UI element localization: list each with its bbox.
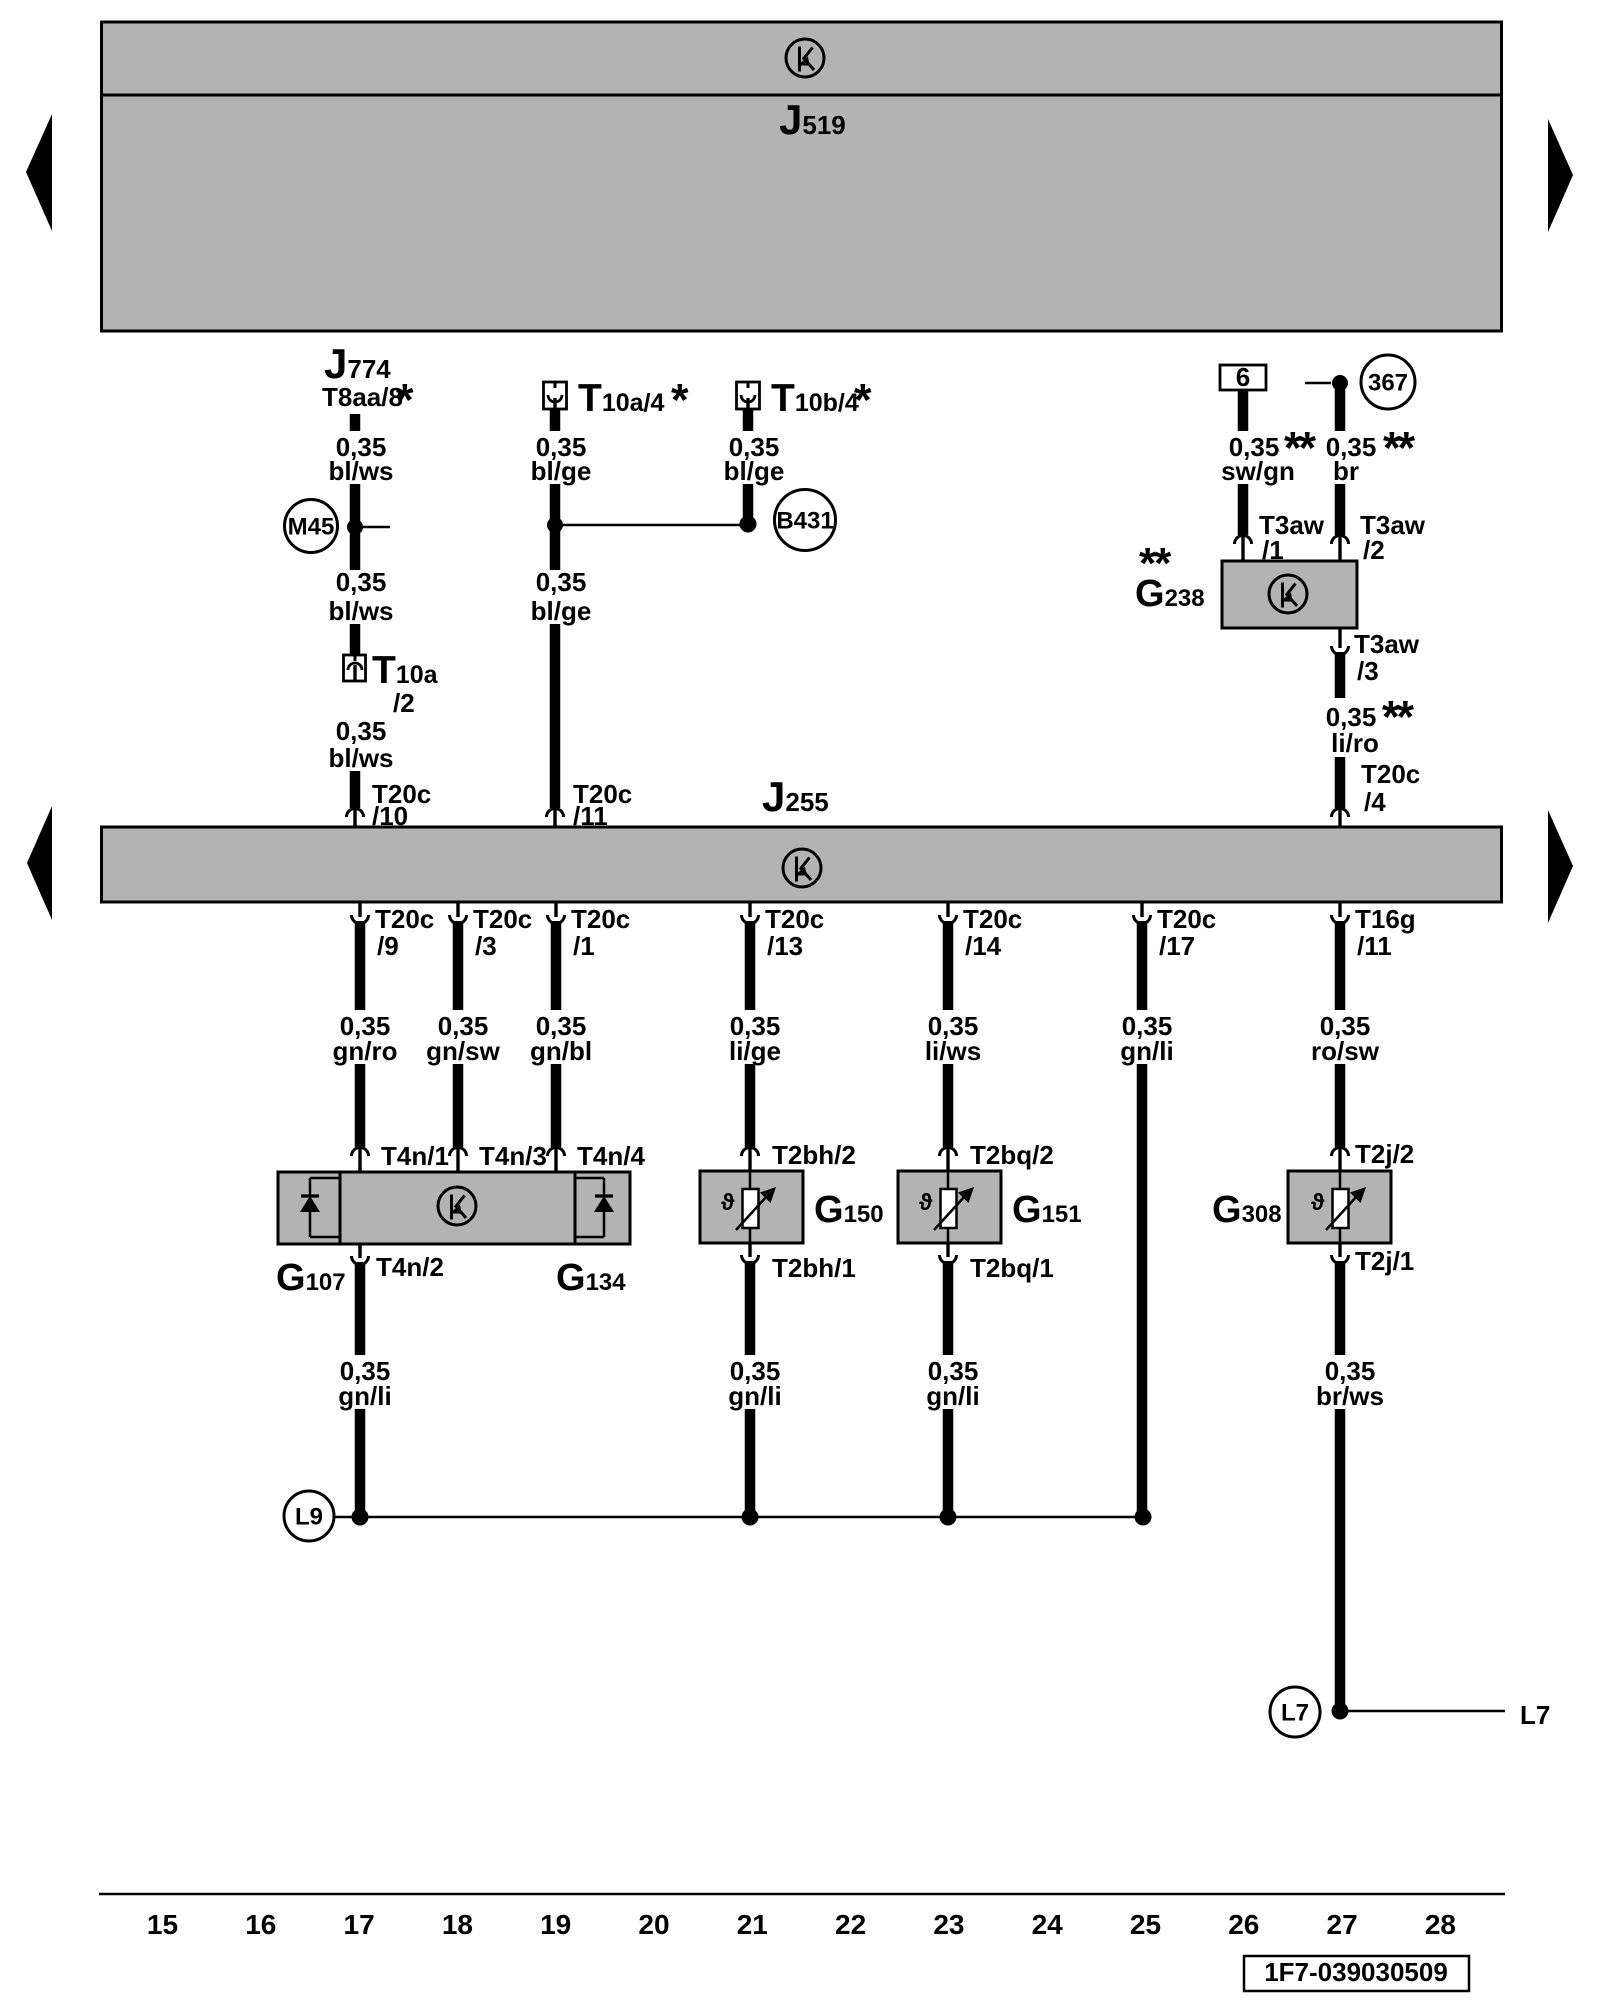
- label T16g /11: [1355, 904, 1416, 961]
- wire bl/ge lower segment: [550, 624, 561, 808]
- svg-text:bl/ws: bl/ws: [328, 596, 393, 626]
- connector pin T20c/11 into J255: [547, 809, 564, 832]
- svg-text:15: 15: [147, 1909, 178, 1940]
- wire segment to component T20c/1: [551, 1064, 562, 1147]
- svg-text:ϑ: ϑ: [1311, 1189, 1325, 1215]
- svg-text:/9: /9: [377, 931, 399, 961]
- wire label 0,35 bl/ws (upper): [328, 432, 393, 486]
- wire li/ro lower segment: [1335, 757, 1346, 808]
- wire label 0,35 gn/sw: [426, 1011, 500, 1066]
- wire segment below J255 T16g/11: [1335, 921, 1346, 1010]
- svg-text:T4n/3: T4n/3: [479, 1141, 547, 1171]
- wire segment below J255 T20c/9: [355, 921, 366, 1010]
- label T20c /11: [573, 779, 632, 831]
- inline connector T10a/4*: [544, 382, 567, 414]
- label T10a /2: [372, 649, 439, 718]
- svg-text:bl/ws: bl/ws: [328, 743, 393, 773]
- svg-text:T20c: T20c: [375, 904, 434, 934]
- label J255: [762, 773, 829, 820]
- svg-text:T20c: T20c: [571, 904, 630, 934]
- label T20c /3: [473, 904, 532, 961]
- wire gn/li to L9 (G107 branch): [355, 1409, 366, 1517]
- bottom track line: [99, 1893, 1505, 1896]
- node B431 (junction circle): [775, 490, 836, 551]
- connector pin T3aw/1 into G238: [1235, 536, 1252, 566]
- photodiode G107 (left): [300, 1178, 340, 1237]
- connector pin T20c/3 out of J255: [450, 901, 467, 924]
- wire label 0,35 gn/ro: [333, 1011, 398, 1066]
- junction dot near 367: [1332, 375, 1348, 391]
- svg-text:T8aa/8: T8aa/8: [322, 382, 403, 412]
- wire label 0,35 bl/ge (upper): [531, 432, 592, 486]
- connector pin T3aw/3 out of G238: [1332, 627, 1349, 655]
- svg-text:T20c: T20c: [1157, 904, 1216, 934]
- label T10b/4*: [771, 375, 872, 426]
- label T3aw /2: [1360, 510, 1426, 565]
- label T3aw /1: [1259, 510, 1325, 565]
- wire gn/li segment below G107: [355, 1262, 366, 1355]
- svg-text:T2bq/1: T2bq/1: [970, 1253, 1054, 1283]
- label T2j/2: [1355, 1139, 1414, 1169]
- svg-text:/2: /2: [393, 688, 415, 718]
- svg-text:sw/gn: sw/gn: [1221, 456, 1295, 486]
- label T20c /9: [375, 904, 434, 961]
- label G150: [814, 1189, 884, 1231]
- wire label 0,35 li/ge: [729, 1011, 781, 1066]
- svg-text:L7: L7: [1520, 1700, 1550, 1730]
- wire gn/li segment below G151: [943, 1261, 954, 1355]
- svg-text:21: 21: [737, 1909, 768, 1940]
- svg-text:ϑ: ϑ: [919, 1189, 933, 1215]
- wire label 0,35 bl/ge (lower): [531, 567, 592, 626]
- label T10a/4*: [578, 375, 689, 426]
- svg-text:br/ws: br/ws: [1316, 1381, 1384, 1411]
- svg-text:T20c: T20c: [1361, 759, 1420, 789]
- svg-text:T2bh/1: T2bh/1: [772, 1253, 856, 1283]
- wire br segment: [1335, 484, 1346, 535]
- svg-text:br: br: [1333, 456, 1359, 486]
- label G308: [1212, 1189, 1282, 1231]
- label ** for G238: [1139, 539, 1172, 588]
- diagram number box: [1244, 1956, 1469, 1991]
- svg-text:28: 28: [1425, 1909, 1456, 1940]
- continuation arrow left of J519: [26, 114, 52, 231]
- connector pin T2bq/1 out of G151: [940, 1242, 957, 1264]
- wire label 0,35** li/ro: [1326, 692, 1415, 759]
- svg-text:T2bh/2: T2bh/2: [772, 1140, 856, 1170]
- wire stub below terminal 6 (sw/gn): [1238, 390, 1249, 431]
- wire segment to component T20c/13: [745, 1064, 756, 1147]
- svg-text:367: 367: [1368, 370, 1408, 397]
- svg-text:17: 17: [344, 1909, 375, 1940]
- svg-text:T2j/1: T2j/1: [1355, 1246, 1414, 1276]
- wire segment below J255 T20c/1: [551, 921, 562, 1010]
- control unit J255 bar (gray, continued left/right): [102, 827, 1502, 902]
- connector pin T20c/10 into J255: [347, 809, 364, 832]
- svg-text:T20c: T20c: [473, 904, 532, 934]
- label L7 (net name): [1520, 1700, 1550, 1730]
- svg-text:**: **: [1383, 423, 1416, 474]
- svg-text:gn/li: gn/li: [338, 1381, 391, 1411]
- control unit J519 box (gray, continued left/right): [102, 22, 1502, 331]
- connector pin T20c/4 into J255: [1332, 809, 1349, 832]
- wire stub below T10a/4 (bl/ge): [550, 409, 561, 431]
- label connector T8aa/8*: [322, 375, 414, 426]
- svg-text:1F7-039030509: 1F7-039030509: [1264, 1957, 1448, 1987]
- label G238: [1135, 573, 1205, 615]
- label G134: [556, 1257, 626, 1299]
- svg-text:/3: /3: [1357, 656, 1379, 686]
- svg-text:bl/ge: bl/ge: [531, 596, 592, 626]
- svg-text:T4n/1: T4n/1: [381, 1141, 449, 1171]
- label T2j/1: [1355, 1246, 1414, 1276]
- label T2bh/1: [772, 1253, 856, 1283]
- wire segment below J255 T20c/17: [1137, 921, 1148, 1010]
- svg-text:T4n/4: T4n/4: [577, 1141, 645, 1171]
- label T20c /1: [571, 904, 630, 961]
- wire gn/li segment below G150: [745, 1261, 756, 1355]
- wire stub below 367 junction (br): [1335, 388, 1346, 431]
- node L7 (ground designation circle): [1270, 1687, 1320, 1737]
- svg-text:bl/ge: bl/ge: [531, 456, 592, 486]
- wire segment below J255 T20c/3: [453, 921, 464, 1010]
- wire segment below J255 T20c/14: [943, 921, 954, 1010]
- wire br/ws to L7: [1335, 1409, 1346, 1706]
- connector pin T3aw/2 into G238: [1332, 536, 1349, 566]
- connector pin T20c/9 out of J255: [352, 901, 369, 924]
- wire bl/ws middle segment: [350, 624, 361, 655]
- svg-text:/13: /13: [767, 931, 803, 961]
- wire label 0,35 bl/ge (T10b): [724, 432, 785, 486]
- label G151: [1012, 1189, 1082, 1231]
- svg-text:T20c: T20c: [963, 904, 1022, 934]
- svg-text:ro/sw: ro/sw: [1311, 1036, 1380, 1066]
- junction dot L9 at G150 branch: [742, 1509, 759, 1526]
- svg-text:gn/li: gn/li: [1120, 1036, 1173, 1066]
- wire to B431 junction: [563, 524, 740, 527]
- wire bl/ge T10b segment: [743, 484, 754, 517]
- svg-text:bl/ws: bl/ws: [328, 456, 393, 486]
- svg-text:/14: /14: [965, 931, 1002, 961]
- junction dot B431: [740, 516, 757, 533]
- wire bl/ge upper segment: [550, 484, 561, 570]
- svg-text:0,35: 0,35: [336, 567, 387, 597]
- wire label 0,35 bl/ws (middle): [328, 567, 393, 626]
- label T4n/4: [577, 1141, 645, 1171]
- label T2bq/1: [970, 1253, 1054, 1283]
- label T20c /10: [372, 779, 431, 831]
- label T4n/1: [381, 1141, 449, 1171]
- K symbol in G107/G134 unit: [438, 1187, 476, 1225]
- svg-text:/17: /17: [1159, 931, 1195, 961]
- svg-text:bl/ge: bl/ge: [724, 456, 785, 486]
- photodiode G134 (right): [575, 1178, 614, 1237]
- wire stub below J774 (bl/ws): [350, 414, 361, 431]
- label T4n/2: [376, 1252, 444, 1282]
- wire segment to component T20c/9: [355, 1064, 366, 1147]
- wire label 0,35 ro/sw: [1311, 1011, 1380, 1066]
- svg-text:23: 23: [933, 1909, 964, 1940]
- svg-text:22: 22: [835, 1909, 866, 1940]
- svg-text:L9: L9: [295, 1504, 323, 1531]
- svg-text:li/ge: li/ge: [729, 1036, 781, 1066]
- label T2bh/2: [772, 1140, 856, 1170]
- connector pin T2j/2 into G308: [1332, 1148, 1349, 1176]
- label T4n/3: [479, 1141, 547, 1171]
- svg-text:gn/li: gn/li: [926, 1381, 979, 1411]
- label T20c /4: [1361, 759, 1420, 817]
- ground wire L9 rail: [335, 1516, 1143, 1519]
- wire segment below J255 T20c/13: [745, 921, 756, 1010]
- connector pin T4n/2 out of unit: [352, 1243, 369, 1265]
- svg-text:li/ws: li/ws: [925, 1036, 981, 1066]
- ground wire L7 to margin: [1348, 1710, 1505, 1713]
- connector pin T4n/4 into G107/G134 unit: [548, 1148, 565, 1177]
- svg-text:M45: M45: [288, 514, 335, 541]
- label T20c /14: [963, 904, 1022, 961]
- svg-text:L7: L7: [1281, 1700, 1309, 1727]
- connector pin T4n/1 into G107/G134 unit: [352, 1148, 369, 1177]
- wire label 0,35 gn/li: [1120, 1011, 1173, 1066]
- inline connector T10a/2: [344, 655, 366, 681]
- svg-text:gn/sw: gn/sw: [426, 1036, 500, 1066]
- wire label 0,35 gn/li (G151 branch): [926, 1356, 979, 1411]
- svg-text:26: 26: [1228, 1909, 1259, 1940]
- K symbol in G238: [1269, 575, 1307, 613]
- svg-text:/1: /1: [573, 931, 595, 961]
- label T2bq/2: [970, 1140, 1054, 1170]
- junction dot L9 at T20c/17 branch: [1135, 1509, 1152, 1526]
- svg-text:18: 18: [442, 1909, 473, 1940]
- svg-text:T2j/2: T2j/2: [1355, 1139, 1414, 1169]
- junction dot on bl/ws wire at M45: [347, 519, 363, 535]
- connector pin T20c/17 out of J255: [1134, 901, 1151, 924]
- svg-text:25: 25: [1130, 1909, 1161, 1940]
- junction dot on bl/ge wire: [547, 517, 563, 533]
- node 367 (junction circle): [1361, 355, 1415, 409]
- stub wire left of 367 junction: [1305, 382, 1331, 385]
- junction dot L9 at G151 branch: [940, 1509, 957, 1526]
- sensor G238 box: [1222, 561, 1357, 628]
- inline connector T10b/4*: [737, 382, 760, 414]
- stub wire right of M45 junction: [363, 526, 390, 529]
- wire label 0,35 gn/li (G150 branch): [728, 1356, 781, 1411]
- svg-text:/3: /3: [475, 931, 497, 961]
- svg-text:gn/li: gn/li: [728, 1381, 781, 1411]
- svg-text:ϑ: ϑ: [721, 1189, 735, 1215]
- svg-text:0,35: 0,35: [536, 567, 587, 597]
- wire label 0,35** sw/gn: [1221, 423, 1316, 487]
- wire label 0,35 gn/li (G107 branch): [338, 1356, 391, 1411]
- label G107: [276, 1257, 346, 1299]
- label J774: [324, 340, 391, 387]
- svg-text:gn/bl: gn/bl: [530, 1036, 592, 1066]
- connector pin T2bh/2 into G150: [742, 1148, 759, 1176]
- connector pin T20c/1 out of J255: [548, 901, 565, 924]
- wire bl/ws lower segment: [350, 771, 361, 808]
- wire stub below T10b/4 (bl/ge): [743, 409, 754, 431]
- wire sw/gn segment: [1238, 484, 1249, 535]
- wire segment to component T20c/14: [943, 1064, 954, 1147]
- svg-text:/2: /2: [1363, 535, 1385, 565]
- wire label 0,35 bl/ws (lower): [328, 716, 393, 773]
- svg-text:19: 19: [540, 1909, 571, 1940]
- label T20c /17: [1157, 904, 1216, 961]
- sensor G151 box (thermistor): [898, 1171, 1001, 1243]
- wire 0,35 bl/ws upper segment: [350, 484, 361, 570]
- wire label 0,35** br: [1326, 423, 1416, 487]
- wire gn/li to L9 (G150 branch): [745, 1409, 756, 1517]
- terminal 6 box: [1220, 362, 1266, 392]
- svg-text:/4: /4: [1364, 787, 1386, 817]
- svg-text:16: 16: [245, 1909, 276, 1940]
- node M45 (junction circle): [285, 500, 338, 553]
- svg-text:/11: /11: [1357, 931, 1392, 961]
- node L9 (ground designation circle): [284, 1491, 334, 1541]
- continuation arrow left of J255: [27, 806, 52, 920]
- wire br/ws segment below G308: [1335, 1261, 1346, 1355]
- track numbers 15-28: [147, 1909, 1456, 1940]
- wire label 0,35 br/ws: [1316, 1356, 1384, 1411]
- connector pin T2bh/1 out of G150: [742, 1242, 759, 1264]
- wire label 0,35 gn/bl: [530, 1011, 592, 1066]
- connector pin T2bq/2 into G151: [940, 1148, 957, 1176]
- svg-text:T16g: T16g: [1355, 904, 1416, 934]
- continuation arrow right of J255: [1548, 810, 1573, 923]
- junction dot L9 at G107 branch: [352, 1509, 369, 1526]
- K symbol in J255: [783, 849, 821, 887]
- svg-text:T2bq/2: T2bq/2: [970, 1140, 1054, 1170]
- svg-text:gn/ro: gn/ro: [333, 1036, 398, 1066]
- sensor unit G107/G134 outer box: [278, 1172, 630, 1244]
- K symbol in J519: [786, 39, 824, 77]
- connector pin T4n/3 into G107/G134 unit: [450, 1148, 467, 1177]
- sensor G150 box (thermistor): [700, 1171, 803, 1243]
- label T20c /13: [765, 904, 824, 961]
- label T3aw /3: [1354, 629, 1420, 686]
- connector pin T16g/11 out of J255: [1332, 901, 1349, 924]
- label J519: [779, 96, 846, 143]
- svg-text:20: 20: [638, 1909, 669, 1940]
- svg-text:24: 24: [1032, 1909, 1064, 1940]
- wire gn/li long segment (T20c/17 to L9): [1137, 1064, 1148, 1517]
- wire ro/sw segment to G308: [1335, 1064, 1346, 1147]
- connector pin T20c/13 out of J255: [742, 901, 759, 924]
- svg-text:0,35: 0,35: [336, 716, 387, 746]
- svg-text:li/ro: li/ro: [1331, 728, 1379, 758]
- connector pin T2j/1 out of G308: [1332, 1242, 1349, 1264]
- svg-text:27: 27: [1327, 1909, 1358, 1940]
- svg-text:T4n/2: T4n/2: [376, 1252, 444, 1282]
- junction dot L7: [1332, 1703, 1349, 1720]
- continuation arrow right of J519: [1548, 119, 1573, 232]
- svg-text:T3aw: T3aw: [1354, 629, 1420, 659]
- wire gn/li to L9 (G151 branch): [943, 1409, 954, 1517]
- sensor G308 box (thermistor): [1288, 1171, 1391, 1243]
- wire segment to component T20c/3: [453, 1064, 464, 1147]
- connector pin T20c/14 out of J255: [940, 901, 957, 924]
- svg-text:6: 6: [1236, 362, 1250, 392]
- wire li/ro upper segment: [1335, 652, 1346, 698]
- svg-text:B431: B431: [776, 508, 833, 535]
- svg-text:T20c: T20c: [765, 904, 824, 934]
- svg-text:**: **: [1382, 692, 1415, 743]
- wire label 0,35 li/ws: [925, 1011, 981, 1066]
